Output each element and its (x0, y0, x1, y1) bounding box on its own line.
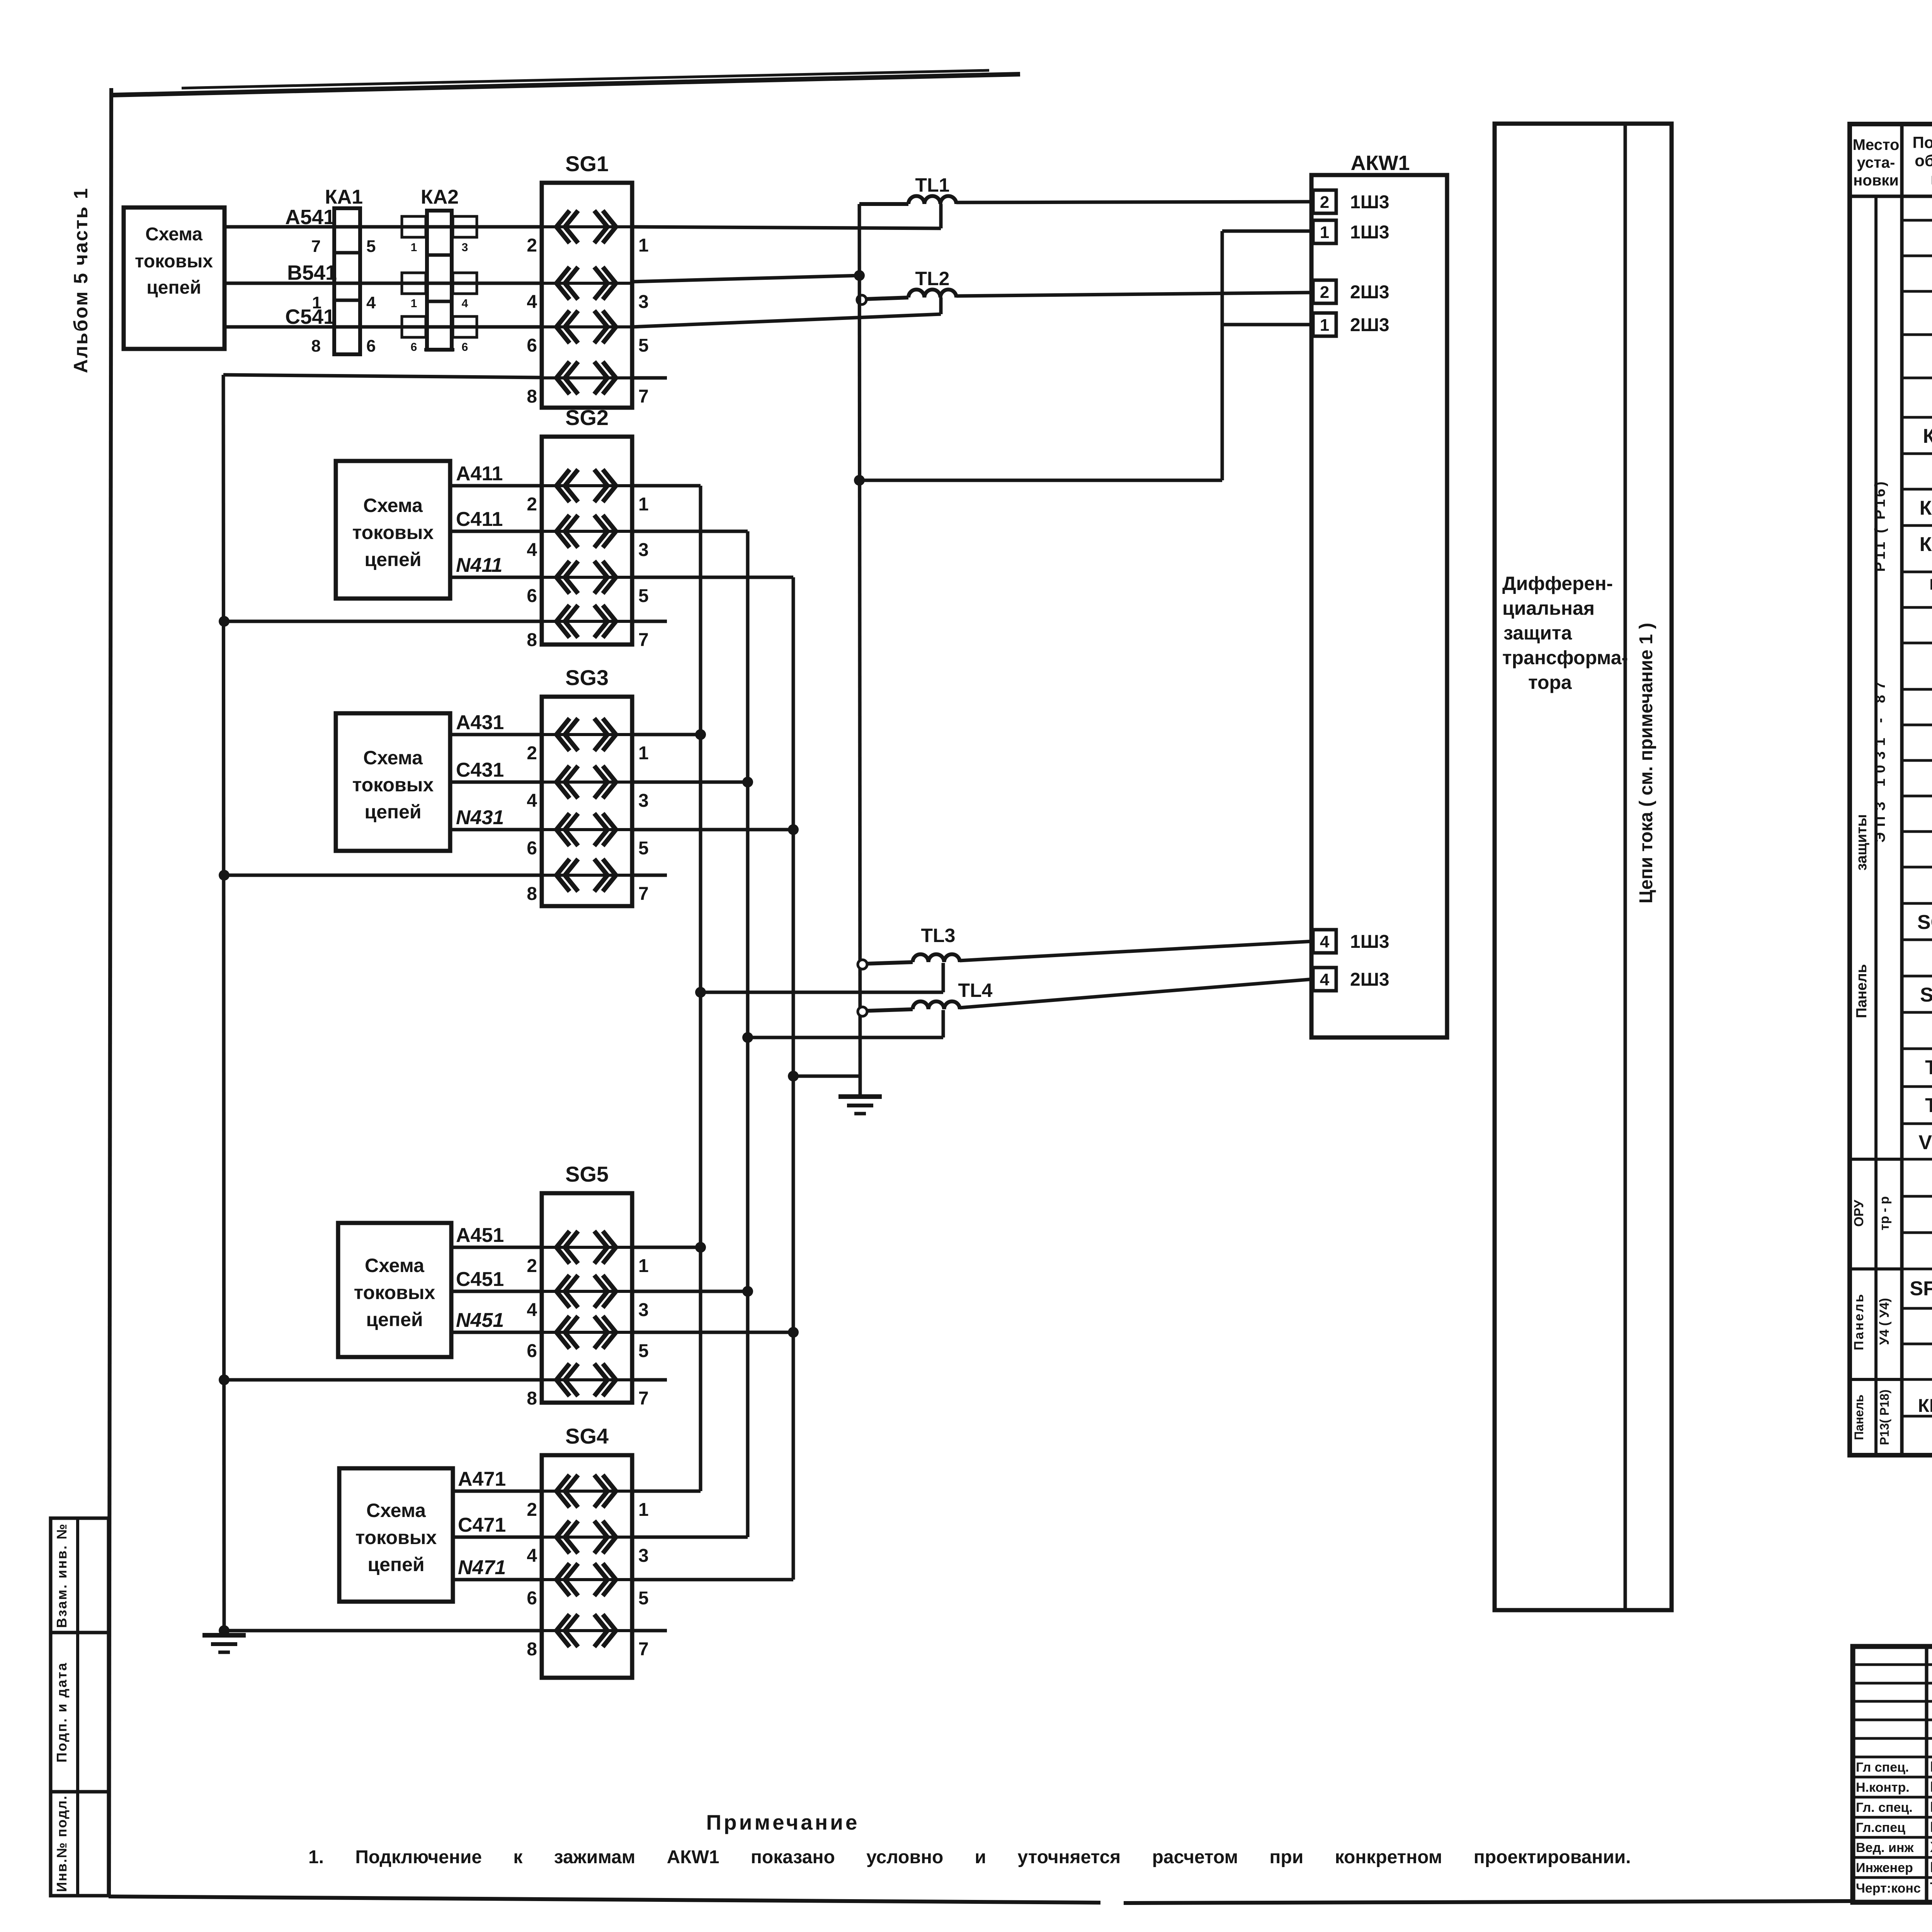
svg-text:3: 3 (462, 241, 468, 254)
svg-text:N431: N431 (456, 806, 504, 829)
wire TL4 to AKW1 4-2Ш3 (960, 979, 1313, 1008)
wire SG3 pin1 (632, 733, 701, 736)
bus N vertical (792, 577, 795, 1580)
svg-text:4: 4 (527, 292, 537, 312)
svg-text:Тимофеева: Тимофеева (1930, 1880, 1932, 1896)
table row TL3 TL4 (1925, 1094, 1932, 1117)
wire B541 (224, 282, 543, 285)
svg-text:1. Подключение к зажимам АКW1: 1. Подключение к зажимам АКW1 показано у… (308, 1847, 1631, 1867)
junction SG5 pin3 on bus C (742, 1286, 753, 1297)
wire AKW1 1-2Ш3 lead (1222, 323, 1313, 327)
protection device AKW1 box (1311, 175, 1447, 1037)
wire bus N to ground link (793, 1075, 860, 1078)
svg-text:Черт:конс: Черт:конс (1856, 1881, 1921, 1896)
junction SG5 pin8 (219, 1374, 230, 1385)
function box rotated label Цепи тока (1636, 623, 1656, 904)
relay KA2 terminal brackets (402, 216, 477, 337)
svg-text:1Ш3: 1Ш3 (1350, 192, 1389, 213)
svg-text:КА1: КА1 (325, 186, 363, 208)
svg-text:8: 8 (527, 386, 537, 407)
table header Место установки (1853, 136, 1900, 189)
table row TL1 TL2 (1925, 1052, 1932, 1085)
stamp label Инв.№ подл. (54, 1795, 70, 1892)
wire SG4 pin5 (632, 1578, 793, 1582)
svg-text:1Ш3: 1Ш3 (1350, 932, 1389, 952)
svg-text:4: 4 (527, 791, 537, 811)
wire TL2 return riser (939, 298, 943, 314)
svg-text:5: 5 (366, 237, 376, 256)
svg-text:N471: N471 (458, 1556, 506, 1579)
wire С451 label (456, 1268, 504, 1291)
svg-text:тр - р: тр - р (1877, 1196, 1892, 1230)
svg-text:VД1 - VД3: VД1 - VД3 (1918, 1131, 1932, 1154)
terminal AKW1 2-2Ш3 at y755 (1313, 280, 1389, 303)
svg-text:3: 3 (638, 292, 649, 312)
svg-text:Альбом 5 часть 1: Альбом 5 часть 1 (70, 187, 92, 373)
svg-text:С411: С411 (456, 508, 503, 531)
svg-text:1: 1 (411, 297, 417, 310)
svg-text:Панель: Панель (1854, 964, 1870, 1018)
transformer TL2 coil (908, 289, 956, 298)
page frame top border (doubled scan line) (113, 70, 1020, 95)
svg-text:2: 2 (1320, 283, 1329, 302)
block text (411) (352, 495, 434, 570)
svg-text:С451: С451 (456, 1268, 504, 1291)
svg-text:SG2: SG2 (565, 405, 609, 430)
wire N471 label (458, 1556, 506, 1579)
svg-text:1: 1 (1320, 223, 1329, 242)
page frame bottom border (109, 1896, 1853, 1903)
wire А471 (453, 1490, 542, 1493)
wire TL4 return riser (942, 1010, 945, 1037)
svg-text:4: 4 (527, 1300, 537, 1320)
function box Дифференциальная защита трансформатора (1495, 124, 1672, 1610)
block Схема токовых цепей (411) (336, 461, 450, 599)
function box text (1502, 573, 1628, 693)
note heading Примечание (706, 1810, 860, 1834)
transformer TL2 label (915, 268, 950, 289)
wire SG4 pin7 stub (632, 1629, 667, 1633)
svg-text:SG5: SG5 (565, 1162, 609, 1186)
svg-text:Вед. инж: Вед. инж (1856, 1840, 1914, 1855)
svg-text:ТL3: ТL3 (921, 925, 956, 946)
svg-text:С431: С431 (456, 759, 504, 781)
svg-text:1: 1 (411, 241, 417, 254)
svg-text:Гл.спец: Гл.спец (1856, 1820, 1905, 1835)
svg-text:А411: А411 (456, 463, 503, 485)
svg-text:7: 7 (638, 1388, 649, 1409)
svg-text:по схеме: по схеме (1930, 170, 1932, 188)
wire SG3 pin3 (632, 781, 748, 784)
svg-text:Панель: Панель (1852, 1395, 1866, 1440)
table col1 rotated У4 (У4) (1877, 1298, 1892, 1345)
svg-text:ТL3, ТL4: ТL3, ТL4 (1925, 1094, 1932, 1117)
svg-text:6: 6 (527, 838, 537, 859)
transformer TL1 label (915, 174, 950, 196)
svg-text:SG1 - SG5: SG1 - SG5 (1917, 911, 1932, 934)
svg-text:обозначение: обозначение (1915, 151, 1932, 170)
svg-text:2: 2 (527, 1256, 537, 1276)
test block SG2 (527, 437, 648, 650)
block Схема токовых цепей (471) (339, 1468, 453, 1602)
table row KL1-KL5 KL7 KL8 (1929, 576, 1932, 609)
svg-text:АКW1: АКW1 (1351, 151, 1410, 175)
svg-text:5: 5 (638, 838, 649, 859)
svg-text:токовых: токовых (135, 251, 213, 272)
table row KA1 KA2 (1923, 425, 1932, 447)
svg-text:Дифферен-: Дифферен- (1502, 573, 1613, 594)
svg-text:цепей: цепей (364, 549, 421, 570)
svg-text:КН4 - КН5: КН4 - КН5 (1920, 533, 1932, 556)
wire SG5 pin8 to bus (224, 1378, 542, 1382)
stamp label Взам. инв. № (54, 1523, 70, 1628)
test block SG1 (527, 183, 648, 408)
transformer TL1 coil (908, 196, 956, 204)
table row VD1-VD3 (1918, 1131, 1932, 1154)
svg-text:1: 1 (638, 1256, 649, 1276)
svg-text:Хрипункова: Хрипункова (1930, 1839, 1932, 1855)
block Схема токовых цепей (541) (124, 207, 224, 349)
table col1 rotated Р11 (Р16) (1872, 479, 1888, 572)
svg-text:7: 7 (638, 630, 649, 650)
svg-text:цепей: цепей (146, 277, 201, 298)
junction TL3 return on bus A (695, 987, 706, 998)
transformer TL1 input lead (859, 202, 908, 206)
wire SG2 pin5 to bus N (632, 576, 793, 579)
svg-text:А451: А451 (456, 1224, 504, 1247)
wire SG1 pin5 to TL2 return (632, 314, 941, 327)
svg-text:7: 7 (638, 884, 649, 904)
bus common vertical (859, 204, 860, 1076)
svg-text:Никитин: Никитин (1930, 1759, 1932, 1775)
wire N431 (450, 828, 542, 832)
svg-text:Позиционное: Позиционное (1912, 133, 1932, 151)
transformer TL4 label (958, 980, 993, 1001)
svg-text:токовых: токовых (352, 774, 434, 796)
wire А471 label (458, 1468, 506, 1490)
table col1 rotated Панель Р13 (1852, 1395, 1866, 1440)
svg-text:5: 5 (638, 586, 649, 606)
table col1 rotated ЭПЗ 1031-87 (1872, 676, 1888, 842)
svg-text:А471: А471 (458, 1468, 506, 1490)
svg-text:токовых: токовых (354, 1282, 435, 1303)
svg-text:6: 6 (527, 1341, 537, 1361)
svg-text:2: 2 (1320, 193, 1329, 212)
junction B541 on common bus (854, 270, 865, 281)
svg-text:6: 6 (411, 341, 417, 354)
junction SG3 pin8 (219, 870, 230, 881)
svg-text:Взам. инв. №: Взам. инв. № (54, 1523, 70, 1628)
svg-text:С541: С541 (285, 305, 335, 328)
svg-text:Инв.№ подл.: Инв.№ подл. (54, 1795, 70, 1892)
test block SG5 label (565, 1162, 609, 1186)
wire А451 label (456, 1224, 504, 1247)
table col1 rotated Панель У4 (1852, 1293, 1866, 1350)
junction N-ground link on bus N (788, 1071, 799, 1082)
svg-text:SХ2 , SХ3: SХ2 , SХ3 (1920, 984, 1932, 1006)
transformer TL3 label (921, 925, 956, 946)
transformer TL3 coil (913, 954, 960, 962)
wire SG5 pin3 (632, 1290, 748, 1293)
title block signature row Гл. спец. Пршисовский (1856, 1799, 1932, 1815)
table row KH4-KH5 (1920, 533, 1932, 556)
wire N451 (451, 1331, 542, 1334)
svg-text:КН1 - КН3: КН1 - КН3 (1920, 497, 1932, 519)
stamp box divider 2 (51, 1790, 109, 1794)
svg-text:6: 6 (366, 337, 376, 355)
svg-text:7: 7 (638, 1639, 649, 1660)
terminal AKW1 4-2Ш3 at y2534 (1313, 968, 1389, 991)
wire TL1 return riser (939, 204, 943, 228)
wire SG1 pin7 stub (632, 376, 667, 380)
wire А411 (450, 484, 542, 488)
svg-text:6: 6 (462, 341, 468, 354)
title block signature row Вед. инж Хрипункова (1856, 1839, 1932, 1855)
block text (451) (354, 1255, 435, 1330)
wire SG1 pin8 to bus (223, 375, 542, 378)
wire С451 (451, 1290, 542, 1293)
relay KA1 label (325, 186, 363, 208)
wire SG5 pin7 stub (632, 1378, 667, 1382)
svg-text:ЭПЗ 1031 - 87: ЭПЗ 1031 - 87 (1872, 676, 1888, 842)
svg-text:КL21, КL22: КL21, КL22 (1918, 1396, 1932, 1416)
wire TL3 return (701, 991, 943, 994)
svg-text:Инженер: Инженер (1856, 1861, 1913, 1875)
wire N471 (453, 1578, 542, 1582)
wire SG4 pin8 to bus (224, 1629, 542, 1633)
wire SG5 pin1 (632, 1246, 701, 1249)
svg-text:7: 7 (638, 386, 649, 407)
title block signature row Н.контр. Горелик (1856, 1779, 1932, 1795)
title block signature row Инженер Иванова (1856, 1859, 1932, 1876)
relay KA2 label (421, 186, 459, 208)
transformer TL4 coil (913, 1002, 960, 1009)
wire TL3 return riser (942, 963, 945, 992)
terminal AKW1 1-1Ш3 at y600 (1313, 220, 1389, 243)
wire TL3 to AKW1 4-1Ш3 (960, 941, 1313, 961)
relay KA1 (334, 208, 360, 354)
svg-text:2Ш3: 2Ш3 (1350, 969, 1389, 990)
svg-text:5: 5 (638, 335, 649, 356)
wire А431 (450, 733, 542, 736)
wire AKW1 1-terminals link horizontal (859, 479, 1222, 482)
wire C541 (224, 325, 543, 329)
title block signature row Черт:конс Тимофеева (1856, 1880, 1932, 1896)
wire А411 label (456, 463, 503, 485)
wire SG3 pin8 to bus (224, 874, 542, 877)
svg-text:5: 5 (638, 1588, 649, 1609)
wire A541 label (285, 206, 335, 229)
junction SG4 pin8 (219, 1625, 230, 1636)
stamp box inner divider (76, 1518, 79, 1896)
svg-text:Н.контр.: Н.контр. (1856, 1780, 1910, 1795)
title block grid (1853, 1646, 1932, 1902)
svg-text:1: 1 (638, 494, 649, 515)
wire SG1 pin1 to TL1 return (632, 227, 941, 228)
title block signature row Гл спец. Никитин (1856, 1759, 1932, 1775)
svg-text:Цепи тока ( см. примеч: Цепи тока ( см. примечание 1 ) (1636, 623, 1656, 904)
svg-text:новки: новки (1853, 172, 1899, 189)
table header Позиционное обозначение по схеме (1912, 133, 1932, 188)
bus C vertical (746, 531, 750, 1537)
wire C541 label (285, 305, 335, 328)
junction SG3 pin5 on bus N (788, 824, 799, 835)
stamp label Подп. и дата (54, 1662, 70, 1763)
svg-text:SG1: SG1 (565, 151, 609, 176)
junction SG3 pin1 on bus A (695, 729, 706, 740)
svg-text:SF5: SF5 (1910, 1277, 1932, 1300)
svg-text:4: 4 (527, 1546, 537, 1566)
wire С411 (450, 530, 542, 533)
svg-text:цепей: цепей (364, 801, 421, 823)
wire А451 (451, 1246, 542, 1249)
protection device AKW1 label (1351, 151, 1410, 175)
test block SG4 label (565, 1424, 609, 1448)
title block signature row Гл.спец Горелик (1856, 1819, 1932, 1835)
svg-text:4: 4 (1320, 932, 1330, 951)
transformer TL4 input ring (858, 1007, 867, 1016)
relay KA2 bracket pins (411, 241, 468, 354)
wire TL2 to AKW1 2-2Ш3 (956, 293, 1313, 296)
svg-text:защита: защита (1503, 622, 1572, 644)
svg-text:3: 3 (638, 1300, 649, 1320)
svg-text:Р11 ( Р16): Р11 ( Р16) (1872, 479, 1888, 572)
table col1 rotated ОРУ (1852, 1199, 1866, 1227)
stamp box divider 1 (51, 1631, 109, 1634)
wire AKW1 1-terminals link vertical (1221, 231, 1224, 480)
svg-text:Схема: Схема (145, 224, 202, 245)
svg-text:трансформа-: трансформа- (1502, 647, 1628, 668)
svg-text:ТL1: ТL1 (915, 174, 950, 196)
wire N451 label (456, 1309, 504, 1332)
junction TL4 return on bus C (742, 1032, 753, 1043)
svg-text:Подп. и дата: Подп. и дата (54, 1662, 70, 1763)
svg-text:1: 1 (1320, 316, 1329, 335)
ground left bus (202, 1631, 246, 1652)
svg-text:2: 2 (527, 494, 537, 515)
svg-text:Схема: Схема (366, 1500, 426, 1521)
wire SG4 pin3 (632, 1536, 748, 1539)
svg-text:2Ш3: 2Ш3 (1350, 315, 1389, 335)
svg-text:Иванова: Иванова (1930, 1859, 1932, 1876)
svg-text:SG3: SG3 (565, 665, 609, 690)
wire SG1 pin3 to common bus (632, 276, 859, 282)
table row SF5 (1910, 1272, 1932, 1306)
svg-text:7: 7 (311, 237, 321, 256)
wire SG3 pin7 stub (632, 874, 667, 877)
svg-text:У4 ( У4): У4 ( У4) (1877, 1298, 1892, 1345)
svg-text:1: 1 (638, 743, 649, 764)
transformer TL4 input lead (866, 1009, 913, 1011)
svg-text:ТL4: ТL4 (958, 980, 993, 1001)
svg-text:8: 8 (527, 1639, 537, 1660)
svg-text:8: 8 (527, 1388, 537, 1409)
wire SG5 pin5 (632, 1331, 793, 1334)
wire SG2 pin1 to bus A (632, 484, 701, 488)
svg-text:1: 1 (312, 293, 321, 312)
svg-text:2Ш3: 2Ш3 (1350, 282, 1389, 303)
wire С431 label (456, 759, 504, 781)
test block SG1 label (565, 151, 609, 176)
svg-text:4: 4 (366, 293, 376, 312)
junction SG3 pin3 on bus C (742, 777, 753, 787)
svg-text:3: 3 (638, 540, 649, 560)
svg-text:1Ш3: 1Ш3 (1350, 222, 1389, 243)
terminal AKW1 2-1Ш3 at y522 (1313, 190, 1389, 213)
svg-text:8: 8 (311, 337, 321, 355)
svg-text:А431: А431 (456, 711, 504, 734)
wire SG2 pin8 to bus (224, 620, 542, 623)
junction SG2 pin8 (219, 616, 230, 627)
relay KA1 pin 4 (366, 293, 376, 312)
ground common bus (838, 1076, 882, 1114)
svg-text:5: 5 (638, 1341, 649, 1361)
junction SG5 pin5 on bus N (788, 1327, 799, 1338)
wire SG4 pin1 (632, 1490, 701, 1493)
wire AKW1 1-1Ш3 lead (1222, 230, 1313, 233)
bus left vertical (223, 375, 224, 1631)
svg-text:токовых: токовых (352, 522, 434, 543)
relay KA1 pin 1 (312, 293, 321, 312)
transformer TL3 input lead (866, 962, 913, 964)
svg-text:Р13( Р18): Р13( Р18) (1878, 1389, 1891, 1445)
svg-text:Схема: Схема (365, 1255, 425, 1276)
terminal AKW1 1-2Ш3 at y840 (1313, 313, 1389, 336)
wire SG2 pin3 to bus C (632, 530, 748, 533)
svg-text:КL1 - КL5;: КL1 - КL5; (1929, 576, 1932, 593)
svg-text:4: 4 (1320, 970, 1330, 989)
test block SG3 (527, 697, 648, 906)
terminal AKW1 4-1Ш3 at y2436 (1313, 930, 1389, 953)
svg-text:Место: Место (1853, 136, 1900, 153)
table row KL21 KL22 (1918, 1394, 1932, 1417)
transformer TL2 input ring (857, 295, 866, 304)
relay KA1 pin 5 (366, 237, 376, 256)
svg-text:2: 2 (527, 1500, 537, 1520)
wire TL1 to AKW1 2-1Ш3 (956, 202, 1313, 202)
wire SG2 pin7 stub (632, 620, 667, 623)
stamp box column outer (51, 1518, 109, 1896)
svg-text:С471: С471 (458, 1514, 506, 1536)
svg-text:ОРУ: ОРУ (1852, 1199, 1866, 1227)
table col1 rotated тр-р (1877, 1196, 1892, 1230)
block text (541) (135, 224, 213, 298)
svg-text:N451: N451 (456, 1309, 504, 1332)
svg-text:Гл. спец.: Гл. спец. (1856, 1800, 1913, 1815)
svg-text:Гл спец.: Гл спец. (1856, 1760, 1909, 1775)
wire N411 label (456, 554, 502, 577)
svg-text:3: 3 (638, 1546, 649, 1566)
junction SG5 pin1 on bus A (695, 1242, 706, 1253)
svg-text:В541: В541 (287, 261, 337, 284)
svg-text:защиты: защиты (1854, 814, 1870, 871)
test block SG2 label (565, 405, 609, 430)
wire С471 label (458, 1514, 506, 1536)
block text (431) (352, 747, 434, 823)
svg-text:Схема: Схема (363, 495, 423, 516)
wire С411 label (456, 508, 503, 531)
svg-text:Схема: Схема (363, 747, 423, 769)
margin note Альбом 5 часть 1 (70, 187, 92, 373)
relay KA1 pin 7 (311, 237, 321, 256)
svg-text:1: 1 (638, 1500, 649, 1520)
svg-text:КА1. КА2: КА1. КА2 (1923, 425, 1932, 447)
test block SG5 (527, 1193, 648, 1409)
svg-text:КА2: КА2 (421, 186, 459, 208)
block text (471) (355, 1500, 437, 1575)
svg-text:тора: тора (1528, 672, 1572, 693)
bus A vertical (699, 486, 702, 1491)
